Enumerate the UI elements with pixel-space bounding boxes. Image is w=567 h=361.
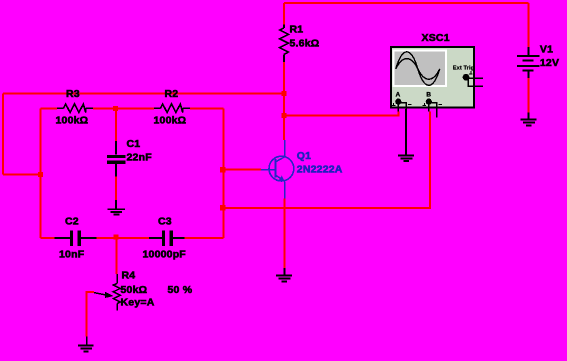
capacitor C1 (107, 141, 126, 177)
svg-text:A: A (396, 92, 401, 99)
wire V1 top lead (528, 3, 530, 47)
svg-text:V1: V1 (540, 44, 553, 56)
wire R3-R2 (93, 107, 154, 109)
wire scope A row (284, 112, 398, 116)
wire C1 top lead (115, 108, 117, 141)
wire R1 top lead (283, 3, 285, 24)
svg-text:R2: R2 (165, 88, 179, 100)
svg-text:100kΩ: 100kΩ (56, 115, 89, 127)
svg-text:10nF: 10nF (59, 248, 85, 260)
battery V1 (517, 47, 540, 78)
svg-text:R3: R3 (66, 88, 80, 100)
terminal B (426, 99, 432, 105)
terminal Ext Trig (463, 74, 470, 81)
node junction C1 tap (113, 106, 118, 111)
wire feedback L1 (3, 92, 284, 94)
svg-text:50kΩ: 50kΩ (121, 284, 148, 296)
svg-text:B: B (426, 92, 431, 99)
wire scope B row (223, 112, 429, 209)
wire collector node vertical (283, 62, 285, 140)
svg-text:Q1: Q1 (297, 150, 311, 162)
svg-text:50 %: 50 % (168, 284, 193, 296)
ground emitter (276, 268, 292, 282)
svg-text:10000pF: 10000pF (143, 248, 187, 260)
svg-text:100kΩ: 100kΩ (154, 115, 187, 127)
pot wiper arrow (94, 293, 106, 295)
wire wiper (87, 292, 94, 336)
ground R4 wiper (78, 337, 94, 353)
wire Vcc top rail (284, 2, 529, 4)
ground C1 (108, 200, 126, 215)
ground V1 (521, 112, 537, 126)
terminal A (395, 99, 401, 105)
transistor Q1 (261, 140, 294, 199)
ground scope A- (398, 109, 414, 162)
svg-text:C1: C1 (127, 138, 141, 150)
potentiometer R4 (113, 274, 120, 310)
node junction C2-C3-R4 (113, 235, 118, 240)
wire left vertical (2, 93, 4, 174)
node junction left-column (38, 172, 43, 177)
svg-text:Key=A: Key=A (121, 297, 155, 309)
wire R2 right to base column (190, 107, 223, 109)
scope sine trace (396, 52, 440, 86)
wire R3/C2 column (39, 108, 41, 238)
svg-text:Ext Trig: Ext Trig (453, 65, 475, 71)
svg-text:C3: C3 (158, 216, 172, 228)
node junction base tap (220, 167, 226, 173)
wire C2 to mid junction (97, 237, 149, 239)
svg-text:12V: 12V (540, 57, 559, 69)
svg-text:C2: C2 (65, 216, 79, 228)
wire base (223, 169, 261, 171)
capacitor C3 (149, 231, 185, 247)
svg-text:5.6kΩ: 5.6kΩ (290, 38, 320, 50)
wire emitter down (284, 199, 286, 269)
svg-text:R4: R4 (122, 269, 136, 281)
node junction collector-feedback (282, 91, 287, 96)
wire C2 left lead wire (40, 237, 54, 239)
svg-text:XSC1: XSC1 (422, 32, 450, 44)
svg-text:22nF: 22nF (127, 151, 153, 163)
oscilloscope XSC1 (391, 47, 474, 108)
node junction collector-scopeA (282, 113, 287, 118)
wire C1 bottom lead (115, 176, 117, 200)
wire left bottom horizontal (3, 173, 40, 175)
svg-text:R1: R1 (290, 23, 304, 35)
wire R3 left (40, 107, 57, 109)
node junction scopeB tap (220, 205, 226, 211)
wire V1 bottom lead (528, 78, 530, 112)
capacitor C2 (54, 231, 96, 247)
resistor R1 (280, 24, 289, 62)
wire C3 right to base column (185, 237, 224, 239)
resistor R3 (57, 104, 93, 113)
svg-text:2N2222A: 2N2222A (297, 163, 343, 175)
wire R4 top lead (116, 238, 118, 274)
resistor R2 (154, 104, 190, 113)
wire base column vertical (222, 108, 224, 238)
